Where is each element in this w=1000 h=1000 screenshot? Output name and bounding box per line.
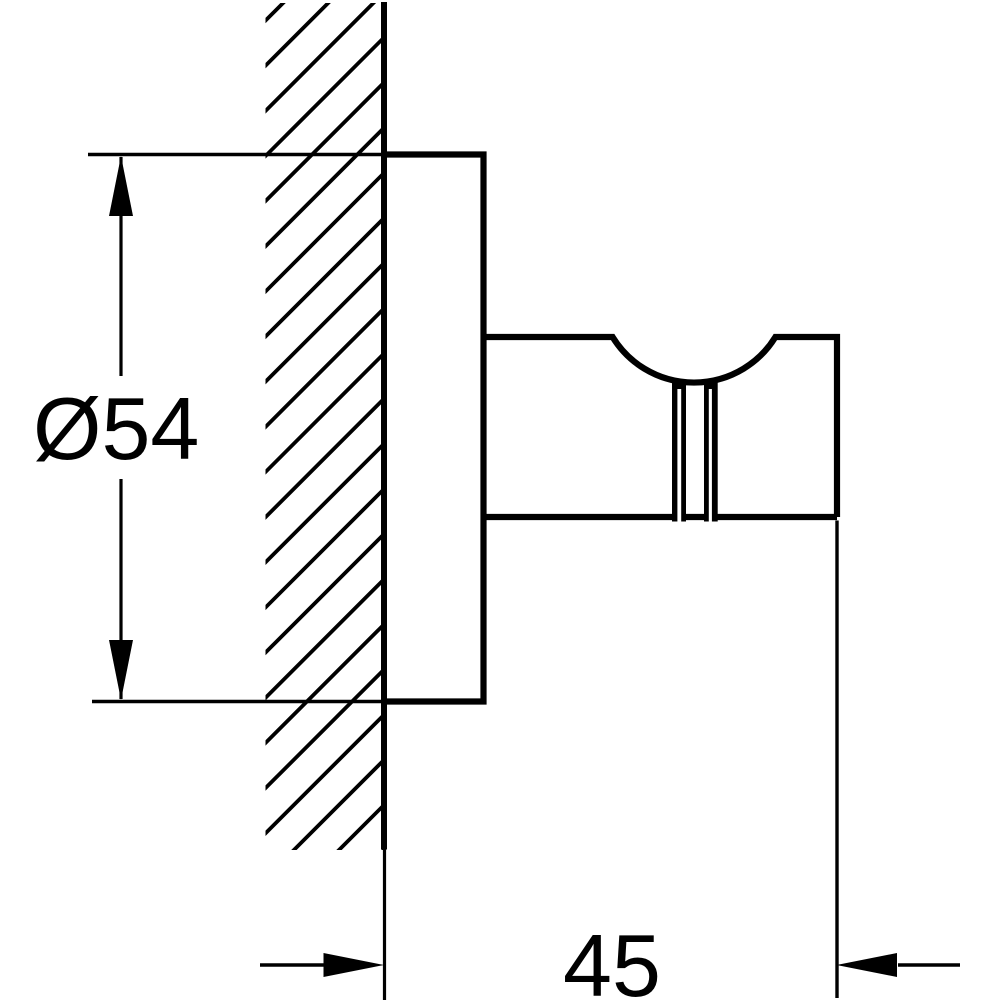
wall line (thick section) — [381, 2, 387, 850]
Ø54 top arrow — [109, 156, 133, 216]
Ø54 dimension line upper segment — [119, 157, 122, 376]
right extension line (thin, below hook) — [835, 521, 838, 999]
Ø54 bottom arrow — [109, 640, 133, 700]
45 dimension right segment — [898, 963, 960, 966]
hook top edge with concave arc + right edge — [484, 337, 838, 517]
45 dimension left arrow — [324, 953, 385, 977]
hook stem left pair — [672, 380, 686, 522]
wall extension line (thin, below wall) — [383, 850, 386, 1000]
45 dimension right arrow — [837, 953, 898, 977]
bottom extension line (thin) — [92, 700, 385, 704]
svg-text:Ø54: Ø54 — [33, 379, 199, 478]
svg-text:45: 45 — [563, 916, 661, 1000]
hook stem right pair — [704, 380, 718, 522]
escutcheon plate outline — [384, 155, 484, 702]
Ø54 dimension line lower segment — [119, 479, 122, 699]
top extension line (thin) — [88, 153, 385, 157]
hook bottom edge — [484, 514, 838, 520]
45 dimension left segment — [260, 963, 325, 966]
